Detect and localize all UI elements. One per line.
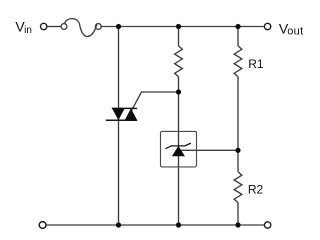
wire left branch (triac anode/cathode) xyxy=(118,27,120,226)
svg-text:R1: R1 xyxy=(248,57,264,71)
shunt regulator U1 (boxed zener) xyxy=(161,131,197,167)
wire top rail xyxy=(102,26,265,28)
wire right branch upper xyxy=(237,27,239,46)
junction top-right xyxy=(235,24,240,29)
terminal bottom right xyxy=(264,222,270,228)
triac Q1 xyxy=(106,108,137,120)
terminal Vin xyxy=(41,23,47,29)
junction top-left xyxy=(116,24,121,29)
wire middle branch lower xyxy=(178,77,180,225)
resistor R1 xyxy=(234,46,242,77)
fuse F1 xyxy=(65,19,97,37)
wire middle branch upper xyxy=(178,27,180,46)
junction gate node xyxy=(176,89,181,94)
junction divider node xyxy=(235,148,240,153)
svg-text:out: out xyxy=(287,26,303,38)
resistor (gate series) xyxy=(175,46,183,77)
junction bottom-left xyxy=(116,222,121,227)
wire Vin terminal to fuse xyxy=(47,26,61,28)
junction bottom-middle xyxy=(176,222,181,227)
junction top-middle xyxy=(176,24,181,29)
label Vout xyxy=(279,20,304,37)
resistor R2 xyxy=(234,172,242,203)
wire bottom rail xyxy=(46,224,264,226)
wire TL431 reference to divider xyxy=(180,149,238,151)
wire triac gate xyxy=(131,92,179,112)
svg-text:R2: R2 xyxy=(248,182,264,196)
terminal Vout xyxy=(264,23,270,29)
label Vin xyxy=(15,18,31,36)
terminal bottom left xyxy=(39,222,46,229)
wire right branch middle xyxy=(237,77,239,172)
junction bottom-right xyxy=(235,222,240,227)
wire right branch lower xyxy=(237,203,239,225)
svg-text:in: in xyxy=(24,25,32,36)
